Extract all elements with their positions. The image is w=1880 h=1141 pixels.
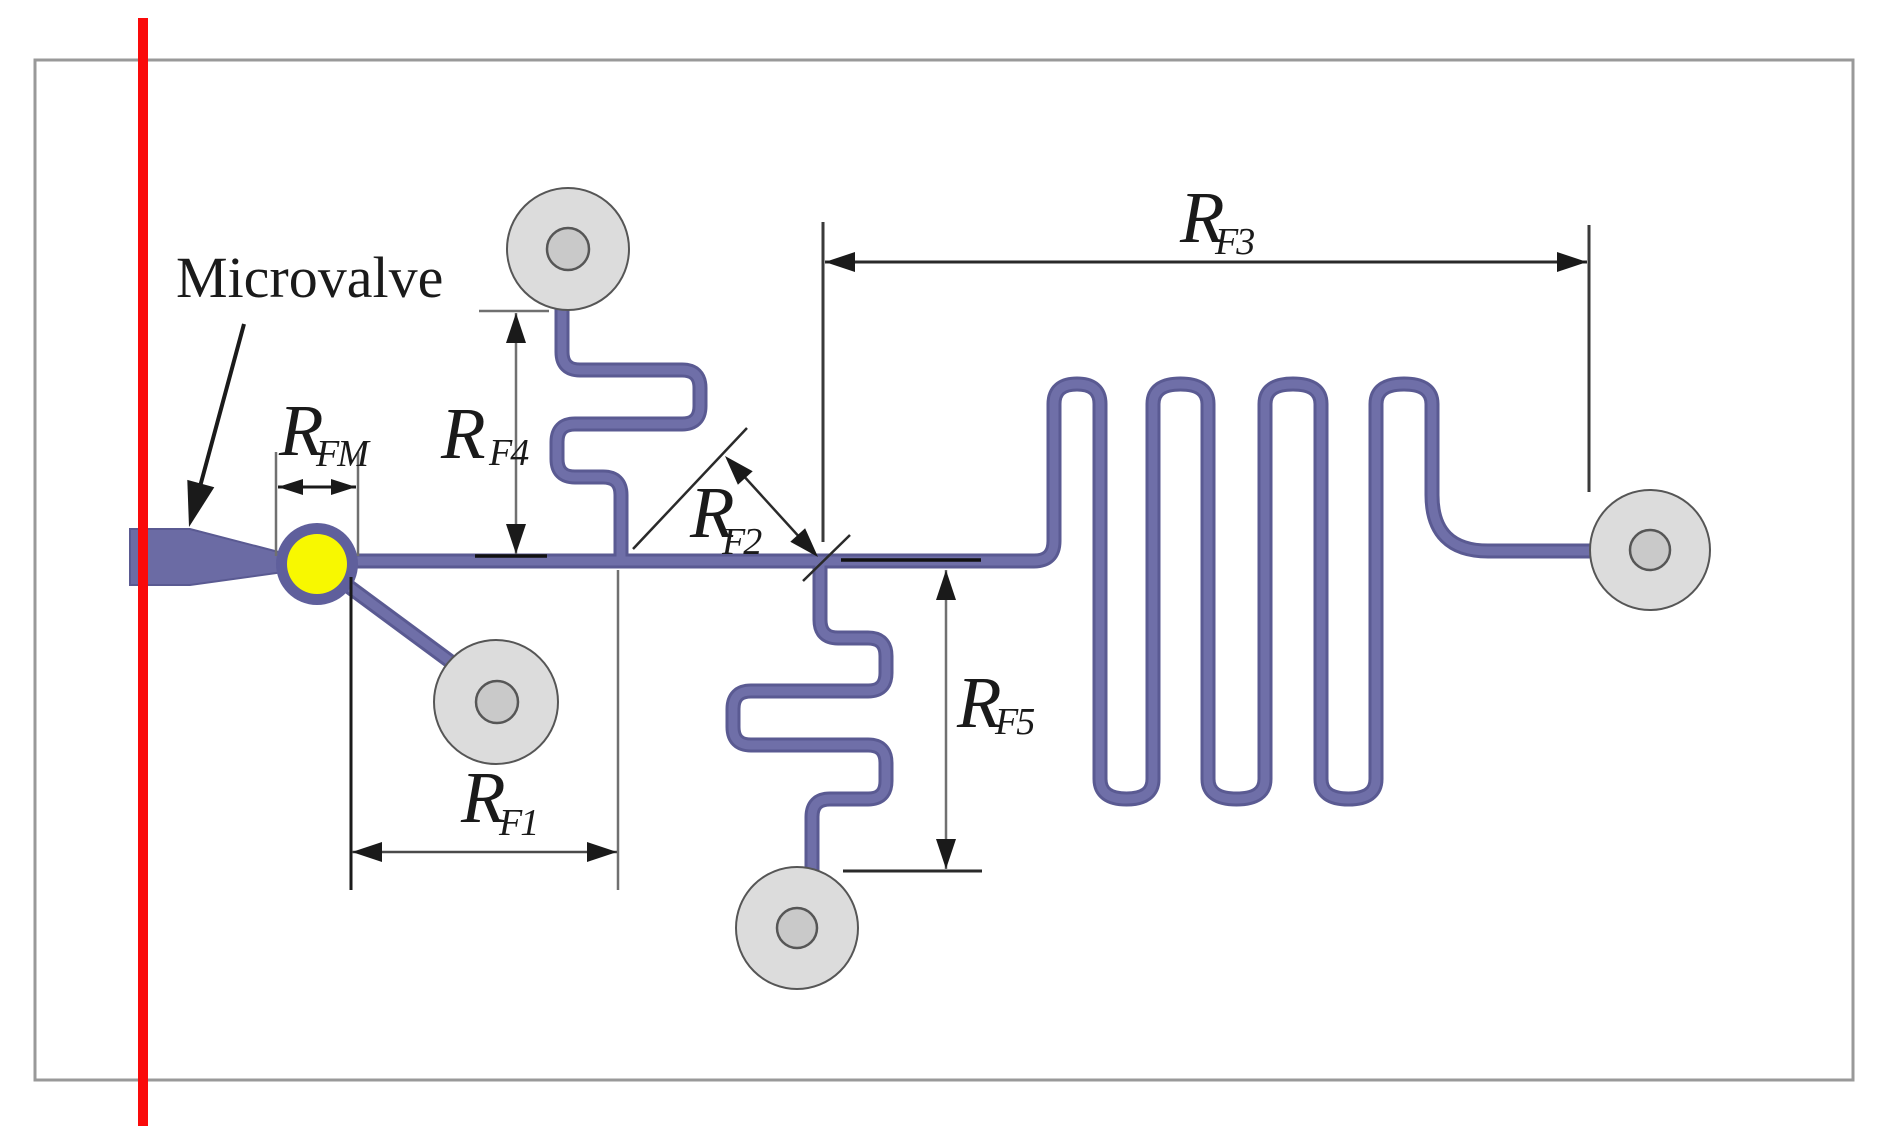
svg-text:F1: F1	[498, 802, 537, 844]
svg-text:F3: F3	[1214, 221, 1254, 263]
svg-text:F4: F4	[488, 432, 529, 474]
svg-text:FM: FM	[315, 433, 371, 475]
svg-text:R: R	[440, 393, 486, 474]
svg-text:Microvalve: Microvalve	[176, 245, 443, 310]
svg-text:F5: F5	[994, 701, 1034, 743]
svg-text:F2: F2	[721, 521, 762, 563]
